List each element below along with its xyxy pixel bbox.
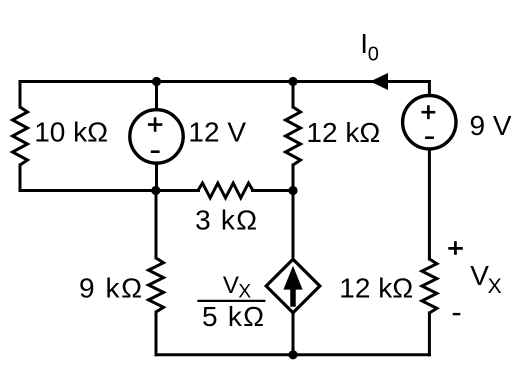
wire top horizontal	[20, 80, 429, 83]
junction node mid-left	[151, 186, 160, 195]
svg-text:X: X	[238, 282, 251, 303]
wire left branch lower	[19, 165, 22, 191]
V2 minus	[425, 136, 434, 139]
fraction bar	[197, 300, 265, 302]
resistor R 12k right zigzag	[422, 259, 437, 313]
V1 minus	[151, 150, 160, 153]
svg-text:9 kΩ: 9 kΩ	[79, 272, 142, 303]
resistor R 9k zigzag	[149, 258, 164, 312]
plus Vx	[448, 241, 463, 255]
wire right branch bottom	[428, 313, 431, 355]
resistor R 12k top zigzag	[286, 107, 301, 165]
svg-text:3 kΩ: 3 kΩ	[195, 205, 257, 236]
source V2 9V circle	[403, 96, 456, 149]
dependent source arrow shaft	[290, 288, 296, 307]
svg-text:10 kΩ: 10 kΩ	[34, 117, 108, 148]
wire right branch top	[428, 82, 431, 97]
current arrow I0	[370, 73, 388, 90]
dependent source diamond	[266, 259, 320, 312]
junction node top-left	[152, 77, 161, 86]
wire diamond branch lower	[292, 313, 295, 355]
source V1 12V circle	[130, 110, 183, 163]
svg-text:5 kΩ: 5 kΩ	[202, 301, 264, 332]
wire 12k top branch lower	[292, 165, 295, 191]
wire 12V branch lower	[155, 163, 158, 191]
wire 12V branch upper	[155, 82, 158, 111]
V1 plus	[148, 117, 162, 131]
svg-text:12 kΩ: 12 kΩ	[306, 117, 380, 148]
dependent source arrow head	[283, 266, 302, 290]
svg-text:0: 0	[368, 44, 379, 66]
svg-text:9 V: 9 V	[470, 110, 511, 141]
svg-text:12 V: 12 V	[188, 117, 246, 148]
wire left branch upper	[19, 82, 22, 108]
wire 12k top branch upper	[292, 82, 295, 108]
V2 plus	[422, 105, 436, 119]
minus Vx	[453, 313, 461, 315]
resistor R 10k zigzag	[13, 107, 28, 165]
svg-text:V: V	[470, 260, 489, 291]
wire right branch middle	[428, 149, 431, 260]
wire middle horizontal left	[20, 189, 199, 192]
wire 9k branch upper	[155, 191, 158, 259]
junction node bottom	[288, 350, 297, 359]
svg-text:V: V	[223, 272, 239, 299]
resistor R 3k zigzag	[198, 183, 253, 198]
junction node mid-right	[288, 186, 297, 195]
junction node top-right	[288, 77, 297, 86]
wire middle horizontal right	[253, 189, 294, 192]
svg-text:12 kΩ: 12 kΩ	[339, 272, 413, 303]
wire diamond branch upper	[292, 191, 295, 260]
svg-text:X: X	[488, 275, 502, 298]
wire bottom horizontal	[156, 353, 429, 356]
wire 9k branch lower	[155, 312, 158, 355]
